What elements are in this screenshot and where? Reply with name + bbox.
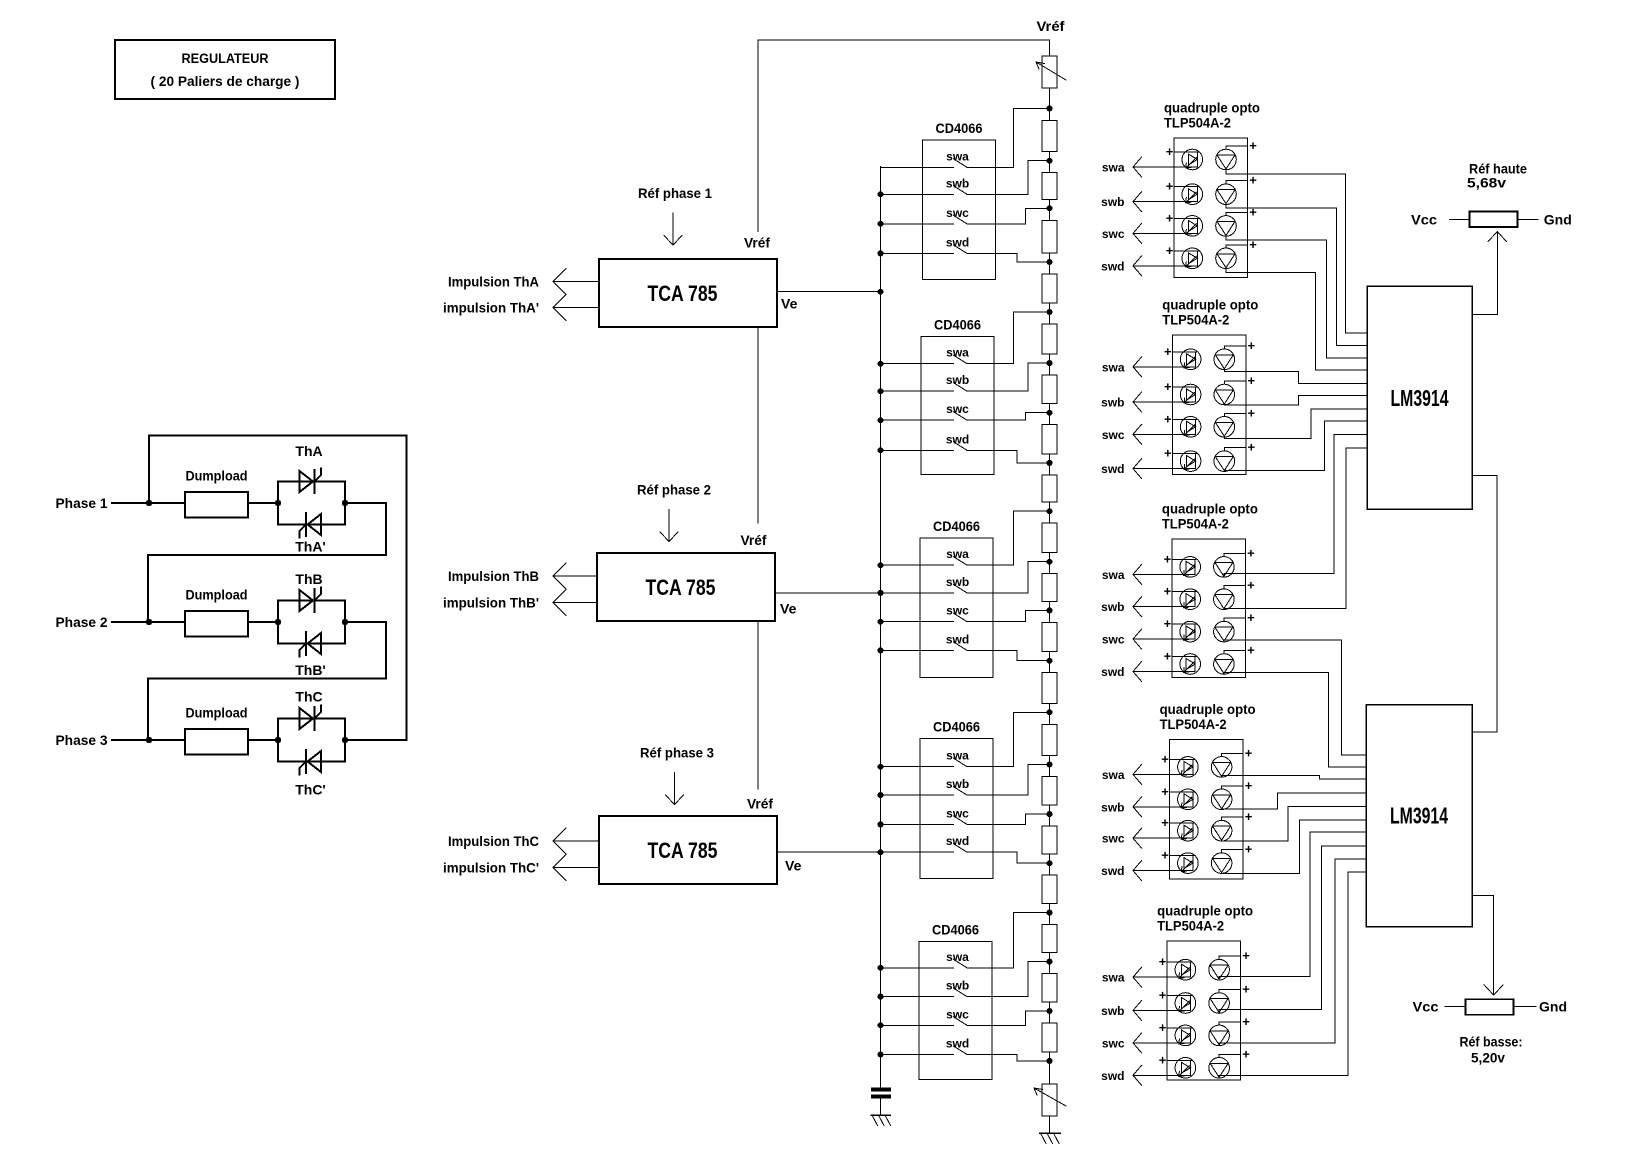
svg-text:swb: swb [1101,195,1124,209]
resistor R10 [1042,562,1057,611]
wire swd #4 to ladder node 15 [967,852,1050,863]
svg-text:+: + [1164,344,1172,359]
svg-text:( 20 Paliers de charge ): ( 20 Paliers de charge ) [151,74,300,89]
wire swa input arrow opto #3 [1133,564,1195,584]
wire output opto #1 ch swb to LM3914 [1226,204,1367,346]
wire ThB bridge right to Phase 3 [148,622,386,740]
node plus collector opto #1 ch swc [1226,204,1257,219]
switch swc of CD4066 #5 [881,1007,970,1025]
node Ref phase 3 input arrow [640,745,714,805]
IC CD4066 #5 [919,921,992,1079]
node Ref phase 1 input arrow [638,185,712,245]
svg-text:+: + [1249,173,1257,188]
svg-text:Réf phase 3: Réf phase 3 [640,745,714,761]
LED opto #3 ch swc [1180,621,1201,642]
phototransistor opto #3 ch swc [1214,621,1235,642]
svg-text:ThA: ThA [295,443,322,459]
svg-text:+: + [1247,610,1255,625]
LED opto #2 ch swc [1180,417,1201,438]
svg-text:+: + [1242,1014,1250,1029]
wire swc #4 to ladder node 14 [967,814,1050,824]
junction ladder node 2 [1047,205,1053,211]
node plus collector opto #2 ch swb [1224,373,1255,388]
node swb input label opto #5 [1101,1004,1124,1018]
svg-text:quadruple opto: quadruple opto [1162,500,1258,516]
wire output opto #3 ch swd to LM3914 [1224,673,1366,768]
svg-text:+: + [1242,948,1250,963]
node plus anode opto #2 ch swa [1164,344,1197,359]
node plus collector opto #2 ch swa [1224,338,1255,353]
switch swb of CD4066 #5 [881,979,970,997]
svg-text:swb: swb [1101,600,1124,614]
node swd input label opto #3 [1101,665,1124,679]
node Ve label TCA3 [785,858,802,874]
node plus collector opto #4 ch swc [1222,809,1253,824]
node plus anode opto #1 ch swb [1166,179,1199,194]
resistor Dumpload 1 [185,468,248,518]
LED opto #1 ch swb [1182,184,1203,205]
wire Ve TCA3 to bus [777,851,881,853]
node plus anode opto #3 ch swd [1164,649,1197,664]
junction ladder node 15 [1047,860,1053,866]
svg-text:+: + [1161,815,1169,830]
switch swd of CD4066 #3 [881,632,970,650]
switch swc of CD4066 #1 [881,206,970,224]
junction bridge 1 left [275,500,281,506]
switch swc of CD4066 #2 [881,402,970,420]
thyristor ThB [295,571,322,612]
op-amp U3 TCA 785 [599,816,777,884]
svg-text:swc: swc [1102,428,1125,442]
node swa input label opto #3 [1102,568,1125,582]
resistor R11 [1042,610,1057,660]
svg-text:quadruple opto: quadruple opto [1157,903,1253,919]
svg-text:Phase 3: Phase 3 [56,732,108,748]
node Ve label TCA1 [781,296,798,312]
phototransistor opto #5 ch swc [1209,1025,1230,1046]
junction bridge 3 right [342,737,348,743]
switch swb of CD4066 #2 [881,373,970,391]
phototransistor opto #5 ch swb [1209,993,1230,1014]
svg-text:REGULATEUR: REGULATEUR [182,51,269,66]
resistor R13 [1042,712,1057,764]
resistor R7 [1042,413,1057,463]
junction bus row swb #3 [878,590,884,596]
wire bridge 3 frame [278,719,345,762]
phototransistor opto #3 ch swb [1214,589,1235,610]
wire swd #5 to ladder node 19 [967,1055,1050,1061]
wire output opto #5 ch swd to LM3914 [1219,872,1366,1078]
junction bus row swb #5 [878,994,884,1000]
svg-text:Phase 1: Phase 1 [56,495,108,511]
node plus collector opto #3 ch swb [1224,578,1255,593]
wire swa input arrow opto #1 [1133,157,1197,177]
node plus collector opto #3 ch swc [1224,610,1255,625]
junction ladder node 4 [1047,309,1053,315]
node plus anode opto #4 ch swd [1161,848,1194,863]
switch swa of CD4066 #1 [881,149,970,167]
svg-text:+: + [1159,1020,1167,1035]
node plus collector opto #5 ch swd [1219,1046,1250,1061]
svg-text:swa: swa [1102,360,1125,374]
wire output opto #3 ch swc to LM3914 [1224,640,1366,755]
wire ThA bridge right to Phase 2 [148,503,386,622]
wire swc #2 to ladder node 6 [967,413,1050,421]
svg-text:impulsion ThB': impulsion ThB' [443,595,539,611]
node plus anode opto #3 ch swc [1164,616,1197,631]
resistor R9 [1042,511,1057,562]
junction ladder node 6 [1047,410,1053,416]
switch swd of CD4066 #1 [881,235,970,253]
wire swc input arrow opto #4 [1133,828,1193,848]
junction bus row swd #3 [878,647,884,653]
wire LM3914 #1 to LM3914 #2 [1472,476,1497,732]
wire output opto #2 ch swd to LM3914 [1224,421,1367,470]
wire dumpload 2 to bridge [248,621,278,623]
LED opto #2 ch swb [1180,384,1201,405]
svg-text:TLP504A-2: TLP504A-2 [1160,716,1227,732]
svg-text:+: + [1242,1046,1250,1061]
svg-text:swd: swd [1101,462,1124,476]
svg-text:Gnd: Gnd [1544,212,1572,228]
svg-text:+: + [1247,643,1255,658]
node plus anode opto #4 ch swc [1161,815,1194,830]
svg-text:swd: swd [1101,1069,1124,1083]
LED opto #5 ch swa [1175,959,1196,980]
svg-text:Réf basse:: Réf basse: [1460,1034,1523,1050]
node plus collector opto #4 ch swd [1222,842,1253,857]
wire swd input arrow opto #5 [1133,1065,1190,1085]
svg-text:ThB': ThB' [295,662,326,678]
resistor R14 [1042,765,1057,815]
svg-text:TLP504A-2: TLP504A-2 [1164,115,1231,131]
wire output opto #5 ch swb to LM3914 [1219,846,1366,1012]
svg-text:+: + [1249,204,1257,219]
svg-text:+: + [1245,842,1253,857]
junction ladder node 8 [1047,508,1053,514]
IC U8 quadruple opto TLP504A-2 label [1157,903,1253,934]
node plus anode opto #2 ch swd [1164,446,1197,461]
ground under capacitor [871,1115,891,1126]
junction bus row swa #2 [878,361,884,367]
svg-text:CD4066: CD4066 [936,120,983,136]
LED opto #4 ch swb [1178,789,1199,810]
thyristor ThA' [295,513,326,555]
wire swa #4 to ladder node 12 [967,712,1050,766]
svg-text:impulsion ThC': impulsion ThC' [443,860,539,876]
svg-text:+: + [1166,243,1174,258]
IC U6 quadruple opto TLP504A-2 label [1162,500,1258,531]
node plus anode opto #1 ch swd [1166,243,1199,258]
node plus collector opto #3 ch swd [1224,643,1255,658]
svg-text:+: + [1164,649,1172,664]
svg-text:+: + [1164,584,1172,599]
wire output opto #3 ch swb to LM3914 [1224,448,1367,609]
LED opto #3 ch swb [1180,589,1201,610]
resistor R8 [1042,463,1057,511]
wire output opto #1 ch swd to LM3914 [1226,268,1367,370]
svg-text:impulsion ThA': impulsion ThA' [443,300,539,316]
svg-text:5,20v: 5,20v [1471,1050,1505,1066]
phototransistor opto #4 ch swc [1211,820,1232,841]
junction bus row swc #4 [878,821,884,827]
node Ref phase 2 input arrow [637,482,711,542]
potentiometer P1 (top) [1036,56,1066,88]
node plus collector opto #4 ch swb [1222,778,1253,793]
wire dumpload 3 to bridge [248,739,278,741]
wire swc #5 to ladder node 18 [967,1011,1050,1025]
svg-text:+: + [1248,405,1256,420]
node swd input label opto #4 [1101,864,1124,878]
LED opto #4 ch swd [1178,853,1199,874]
node plus anode opto #5 ch swd [1159,1052,1192,1067]
junction ladder node 13 [1047,762,1053,768]
svg-text:quadruple opto: quadruple opto [1162,297,1258,313]
IC U6 opto box [1172,539,1246,677]
LED opto #4 ch swa [1178,757,1199,778]
node plus anode opto #1 ch swc [1166,210,1199,225]
wire Ve bus vertical [880,167,882,1089]
wire output opto #4 ch swb to LM3914 [1222,793,1366,809]
wire Phase 1 input [112,502,185,504]
resistor R6 [1042,363,1057,413]
IC CD4066 #2 [921,317,994,475]
wire swa #2 to ladder node 4 [967,312,1050,364]
svg-text:swa: swa [1102,161,1125,175]
junction bus row swb #1 [878,191,884,197]
title box REGULATEUR [115,40,335,99]
node Vref label TCA1 [744,235,770,251]
node swd input label opto #5 [1101,1069,1124,1083]
svg-text:quadruple opto: quadruple opto [1164,100,1260,116]
wire output opto #3 ch swa to LM3914 [1224,435,1367,577]
wire output opto #2 ch swb to LM3914 [1224,396,1367,405]
junction Phase 1 [146,500,152,506]
node Phase 2 label [56,614,108,630]
wire Ve TCA1 to bus [777,291,881,293]
wire swa #3 to ladder node 8 [967,511,1050,565]
junction ladder node 14 [1047,811,1053,817]
svg-text:ThB: ThB [295,571,322,587]
IC U5 quadruple opto TLP504A-2 label [1162,297,1258,328]
wire output opto #2 ch swa to LM3914 [1224,369,1367,384]
node plus collector opto #1 ch swa [1226,138,1257,153]
svg-text:Dumpload: Dumpload [186,468,248,484]
node swb input label opto #4 [1101,800,1124,814]
phototransistor opto #4 ch swb [1211,789,1232,810]
svg-text:+: + [1164,411,1172,426]
phototransistor opto #1 ch swa [1216,149,1237,170]
op-amp U2 TCA 785 [597,553,775,621]
junction ladder node 10 [1047,607,1053,613]
svg-text:swd: swd [1101,864,1124,878]
switch swd of CD4066 #2 [881,432,970,450]
ground under potentiometer P2 [1040,1133,1061,1144]
svg-text:+: + [1248,373,1256,388]
wire bridge 2 frame [278,601,345,644]
resistor R4 [1042,262,1057,312]
node plus anode opto #3 ch swa [1164,551,1197,566]
phototransistor opto #1 ch swd [1216,248,1237,269]
svg-text:Vréf: Vréf [741,532,767,548]
node Vcc label bottom [1413,999,1439,1015]
junction ladder node 11 [1047,658,1053,664]
LED opto #4 ch swc [1178,820,1199,841]
IC U4 quadruple opto TLP504A-2 label [1164,100,1260,131]
svg-text:CD4066: CD4066 [932,921,979,937]
wire Vref vertical segment 3 [757,621,759,789]
wire swc input arrow opto #5 [1133,1033,1190,1053]
svg-text:Dumpload: Dumpload [186,587,248,603]
node output Impulsion ThB arrow [448,563,597,589]
svg-text:5,68v: 5,68v [1467,175,1506,191]
wire Vref vertical segment 1 [757,40,759,232]
svg-text:CD4066: CD4066 [934,317,981,333]
IC U7 quadruple opto TLP504A-2 label [1160,701,1256,732]
LED opto #3 ch swa [1180,557,1201,578]
svg-text:Impulsion ThC: Impulsion ThC [448,833,539,849]
node Phase 1 label [56,495,108,511]
svg-text:ThC': ThC' [295,782,326,798]
node plus anode opto #5 ch swa [1159,954,1192,969]
svg-text:swc: swc [1102,1036,1125,1050]
svg-text:swd: swd [1101,259,1124,273]
resistor R5 [1042,312,1057,363]
node Ref basse labels [1460,1034,1523,1066]
junction bus row swa #3 [878,562,884,568]
phototransistor opto #3 ch swd [1214,654,1235,675]
svg-text:+: + [1159,954,1167,969]
switch swa of CD4066 #4 [881,749,970,767]
node swa input label opto #5 [1102,971,1125,985]
junction Phase 2 [146,619,152,625]
svg-text:+: + [1164,379,1172,394]
svg-text:+: + [1159,1052,1167,1067]
svg-text:swb: swb [1101,800,1124,814]
svg-text:Impulsion ThA: Impulsion ThA [448,273,539,289]
node plus anode opto #5 ch swc [1159,1020,1192,1035]
node output Impulsion ThA arrow [448,268,599,294]
LED opto #3 ch swd [1180,654,1201,675]
resistor R18 [1042,962,1057,1011]
svg-text:TCA 785: TCA 785 [648,281,718,306]
svg-text:swa: swa [1102,768,1125,782]
wire swc #1 to ladder node 2 [967,208,1050,224]
LED opto #5 ch swb [1175,993,1196,1014]
junction ladder node 9 [1047,559,1053,565]
junction bridge 3 left [275,737,281,743]
wire swa input arrow opto #5 [1133,967,1190,987]
svg-text:LM3914: LM3914 [1390,803,1448,829]
junction bus row swc #5 [878,1022,884,1028]
node plus collector opto #2 ch swc [1224,405,1255,420]
IC CD4066 #3 [920,518,993,678]
wire swb #5 to ladder node 17 [967,962,1050,997]
wire swd #1 to ladder node 3 [967,253,1050,262]
wire Phase 2 input [112,621,185,623]
svg-text:Gnd: Gnd [1539,999,1567,1015]
svg-text:+: + [1164,616,1172,631]
wire swa #5 to ladder node 16 [967,913,1050,968]
phototransistor opto #1 ch swb [1216,184,1237,205]
wire Phase1 top loop to ThC bridge right [149,435,407,740]
wire swd input arrow opto #1 [1133,256,1197,276]
phototransistor opto #1 ch swc [1216,216,1237,237]
node output impulsion ThC' arrow [443,855,599,881]
node plus anode opto #1 ch swa [1166,144,1199,159]
node output impulsion ThB' arrow [443,590,597,616]
junction bus row swd #5 [878,1052,884,1058]
wire swd #2 to ladder node 7 [967,450,1050,463]
resistor Dumpload 2 [185,587,248,637]
svg-text:+: + [1247,545,1255,560]
wire swd #3 to ladder node 11 [967,650,1050,660]
node plus collector opto #5 ch swb [1219,982,1250,997]
node Phase 3 label [56,732,108,748]
node plus anode opto #2 ch swc [1164,411,1197,426]
node swd input label opto #2 [1101,462,1124,476]
node swa input label opto #1 [1102,161,1125,175]
LED opto #2 ch swd [1180,451,1201,472]
phototransistor opto #4 ch swa [1211,757,1232,778]
junction Phase 3 [146,737,152,743]
node swc input label opto #3 [1102,633,1125,647]
node plus anode opto #5 ch swb [1159,988,1192,1003]
svg-text:+: + [1248,338,1256,353]
svg-text:swc: swc [1102,227,1125,241]
node plus anode opto #4 ch swa [1161,751,1194,766]
resistor R2 [1042,161,1057,209]
wire output opto #5 ch swc to LM3914 [1219,859,1366,1045]
junction ladder node 17 [1047,959,1053,965]
junction bus row swc #3 [878,619,884,625]
node swc input label opto #1 [1102,227,1125,241]
phototransistor opto #3 ch swa [1214,557,1235,578]
svg-text:Vréf: Vréf [744,235,770,251]
svg-text:TLP504A-2: TLP504A-2 [1162,312,1229,328]
node Vref top label [1037,18,1065,34]
node swc input label opto #4 [1102,832,1125,846]
svg-text:+: + [1164,551,1172,566]
resistor R12 [1042,661,1057,713]
svg-text:Ve: Ve [781,296,798,312]
resistor R3 [1042,208,1057,262]
junction bridge 1 right [342,500,348,506]
wire Ve TCA2 to bus [775,592,881,594]
junction ladder node 12 [1047,709,1053,715]
node plus collector opto #1 ch swd [1226,237,1257,252]
resistor R19 [1042,1011,1057,1061]
svg-text:+: + [1247,578,1255,593]
svg-text:+: + [1159,988,1167,1003]
node swa input label opto #2 [1102,360,1125,374]
LED opto #1 ch swd [1182,248,1203,269]
IC U4 opto box [1174,138,1248,277]
junction bus row swb #2 [878,388,884,394]
thyristor ThC' [295,750,326,798]
op-amp U1 TCA 785 [599,259,777,327]
junction ladder node 16 [1047,910,1053,916]
node plus collector opto #4 ch swa [1222,745,1253,760]
svg-text:Phase 2: Phase 2 [56,614,108,630]
wire swc input arrow opto #3 [1133,629,1195,649]
node output Impulsion ThC arrow [448,828,599,854]
wire swd input arrow opto #2 [1133,459,1196,479]
node output impulsion ThA' arrow [443,295,599,321]
LED opto #1 ch swa [1182,149,1203,170]
node plus collector opto #5 ch swa [1219,948,1250,963]
wire swa input arrow opto #4 [1133,764,1193,784]
